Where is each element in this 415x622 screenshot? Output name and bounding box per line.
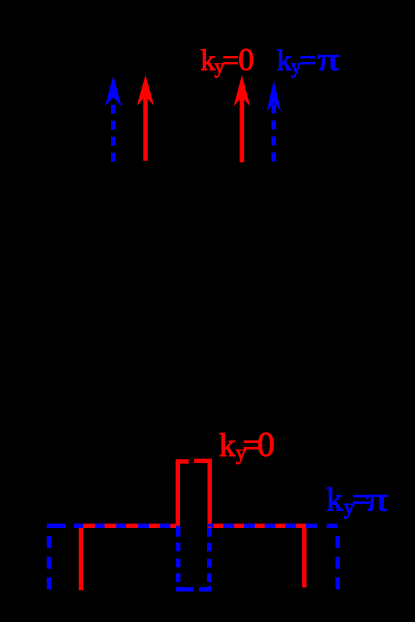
svg-text:π: π xyxy=(366,481,388,518)
svg-text:0: 0 xyxy=(238,41,254,77)
svg-text:k: k xyxy=(326,483,343,519)
svg-text:π: π xyxy=(318,41,340,77)
svg-text:k: k xyxy=(219,428,236,464)
svg-text:k: k xyxy=(277,44,292,77)
svg-text:=: = xyxy=(222,44,239,77)
svg-text:0: 0 xyxy=(257,425,275,464)
svg-text:k: k xyxy=(201,44,216,77)
svg-text:=: = xyxy=(299,44,316,77)
